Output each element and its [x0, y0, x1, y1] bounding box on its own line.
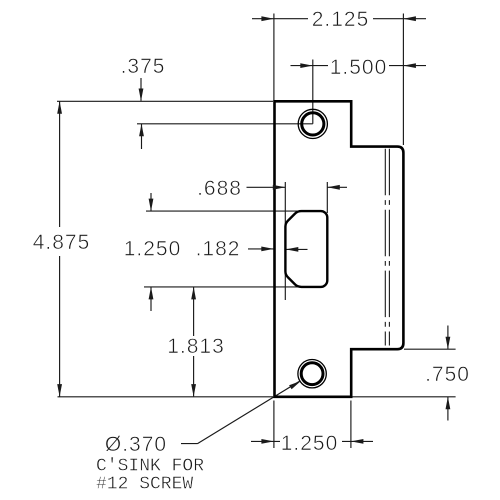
svg-text:1.813: 1.813	[167, 335, 225, 358]
svg-text:1.250: 1.250	[124, 238, 182, 261]
svg-text:.182: .182	[196, 238, 241, 261]
svg-text:#12 SCREW: #12 SCREW	[96, 475, 193, 495]
svg-text:1.500: 1.500	[330, 56, 388, 79]
svg-text:.688: .688	[197, 177, 242, 200]
svg-text:2.125: 2.125	[312, 8, 370, 31]
svg-text:4.875: 4.875	[33, 231, 91, 254]
svg-text:.750: .750	[425, 363, 470, 386]
svg-text:C'SINK FOR: C'SINK FOR	[96, 457, 204, 477]
svg-text:.375: .375	[121, 55, 166, 78]
svg-text:Ø.370: Ø.370	[105, 433, 167, 456]
svg-text:1.250: 1.250	[281, 432, 339, 455]
